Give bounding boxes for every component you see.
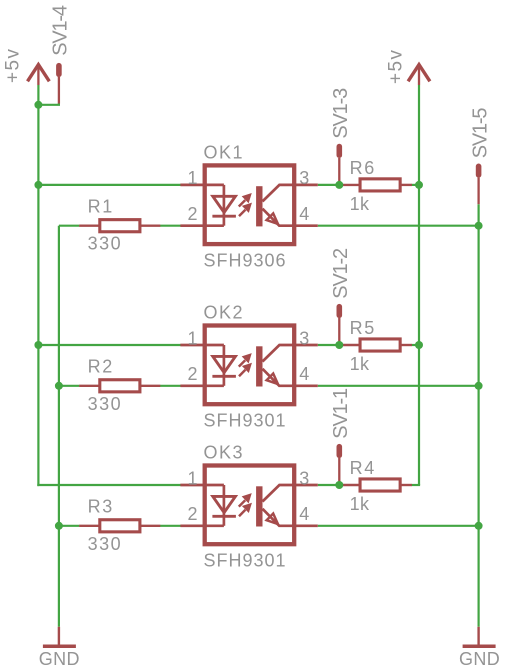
svg-text:3: 3 — [299, 168, 309, 188]
connector pin SV1-5 — [476, 166, 482, 204]
wire OK3 pin4 to SV1-5 net — [318, 525, 479, 527]
node junction SV1-1 — [335, 481, 343, 489]
OK1 body outline — [205, 165, 295, 244]
OK3 light arrow 2 — [239, 510, 245, 516]
svg-text:SV1-1: SV1-1 — [330, 388, 352, 439]
OK2 collector lead pin 3 — [263, 345, 318, 362]
OK3 collector lead pin 3 — [263, 485, 318, 502]
connector pin SV1-4 — [56, 66, 62, 104]
connector pin SV1-1 — [336, 447, 342, 485]
power +5V symbol right — [408, 65, 430, 85]
OK2 emitter lead pin 4 — [263, 369, 318, 386]
svg-text:1k: 1k — [350, 194, 370, 214]
power +5V symbol left — [28, 65, 50, 85]
OK1 emitter lead pin 4 — [263, 209, 318, 226]
node junction R2 left — [55, 382, 63, 390]
svg-text:1k: 1k — [350, 354, 370, 374]
node junction R6 right — [415, 181, 423, 189]
wire OK1 pin3 to SV1-3 node — [318, 184, 340, 186]
svg-text:SFH9301: SFH9301 — [204, 411, 287, 431]
svg-text:R2: R2 — [88, 357, 114, 377]
wire OK1 pin4 to SV1-5 net — [318, 225, 479, 227]
svg-text:SV1-3: SV1-3 — [330, 88, 352, 139]
resistor R1 330 — [79, 196, 160, 253]
svg-text:+5v: +5v — [3, 48, 24, 83]
node junction OK2 pin4 — [475, 382, 483, 390]
resistor R5 1k — [339, 318, 412, 374]
wire R1 to OK1 pin2 — [160, 225, 181, 227]
node junction OK2 pin1 — [34, 341, 42, 349]
svg-text:330: 330 — [88, 234, 123, 254]
OK1 pin 2 lead — [180, 224, 224, 227]
OK1 LED anode rail — [223, 185, 226, 226]
OK1 LED triangle — [213, 196, 236, 212]
OK1 phototransistor base bar — [256, 186, 262, 226]
OK2 pin 1 lead — [180, 344, 224, 347]
resistor R3 330 — [79, 497, 160, 554]
svg-text:R6: R6 — [350, 158, 376, 178]
svg-text:4: 4 — [299, 504, 309, 524]
svg-text:GND: GND — [459, 649, 500, 669]
node junction SV1-2 — [335, 341, 343, 349]
OK3 pin 1 lead — [180, 484, 224, 487]
node junction R5 right — [415, 341, 423, 349]
OK3 LED cathode bar — [212, 515, 236, 518]
OK1 light arrow 2 — [239, 210, 245, 216]
wire R1 left segment — [59, 225, 80, 227]
node junction OK1 pin1 — [34, 181, 42, 189]
OK3 LED anode rail — [223, 485, 226, 526]
optocoupler OK3 SFH9301 — [180, 443, 317, 571]
OK2 emitter arrowhead — [267, 374, 278, 385]
svg-text:SV1-5: SV1-5 — [469, 108, 491, 159]
svg-text:SFH9306: SFH9306 — [204, 251, 287, 271]
ground GND left — [43, 627, 76, 647]
wire net +5V vertical right (line C) — [418, 85, 420, 485]
svg-text:3: 3 — [299, 328, 309, 348]
wire R6 to +5V vertical right — [412, 184, 420, 186]
wire R3 left segment — [59, 525, 80, 527]
wire OK1 pin1 row — [38, 184, 180, 186]
wire R5 to +5V vertical right — [412, 344, 420, 346]
wire OK2 pin4 to SV1-5 net — [318, 385, 479, 387]
node junction OK1 pin4 — [475, 222, 483, 230]
wire R4 to +5V vertical right — [412, 484, 421, 486]
wire OK2 pin1 row — [38, 344, 180, 346]
svg-text:2: 2 — [187, 204, 197, 224]
node junction OK3 pin4 — [475, 522, 483, 530]
svg-text:1: 1 — [187, 468, 197, 488]
resistor R6 1k — [339, 158, 412, 214]
node junction R3 left — [55, 522, 63, 530]
svg-text:R5: R5 — [350, 318, 376, 338]
OK1 collector lead pin 3 — [263, 185, 318, 202]
OK2 light arrow 1 — [239, 346, 278, 386]
svg-text:OK2: OK2 — [204, 303, 245, 323]
svg-text:2: 2 — [187, 504, 197, 524]
OK2 phototransistor base bar — [256, 346, 262, 386]
node junction +5V/SV1-4 — [34, 101, 42, 109]
optocoupler OK2 SFH9301 — [180, 303, 317, 431]
OK3 light arrow 1 — [239, 486, 278, 526]
svg-text:1k: 1k — [350, 494, 370, 514]
svg-text:R1: R1 — [88, 196, 114, 216]
OK2 LED cathode bar — [212, 375, 236, 378]
wire OK2 pin3 to SV1-2 node — [318, 344, 340, 346]
svg-text:330: 330 — [88, 394, 123, 414]
wire OK3 pin3 to SV1-1 node — [318, 484, 340, 486]
OK2 light arrow 2 — [239, 370, 245, 376]
wire net GND vertical left (line B) — [58, 226, 60, 627]
svg-text:OK3: OK3 — [204, 443, 245, 463]
OK3 emitter arrowhead — [267, 514, 278, 525]
svg-text:4: 4 — [299, 204, 309, 224]
OK2 pin 2 lead — [180, 384, 224, 387]
svg-text:1: 1 — [187, 328, 197, 348]
svg-text:4: 4 — [299, 364, 309, 384]
svg-text:SV1-2: SV1-2 — [330, 248, 352, 299]
wire net +5V vertical left (line A) — [37, 85, 40, 485]
svg-text:3: 3 — [299, 468, 309, 488]
svg-text:1: 1 — [187, 168, 197, 188]
resistor R2 330 — [79, 357, 160, 414]
svg-text:R3: R3 — [88, 497, 114, 517]
svg-text:330: 330 — [88, 534, 123, 554]
connector pin SV1-2 — [336, 307, 342, 345]
OK2 LED triangle — [213, 356, 236, 372]
wire OK3 pin1 row — [37, 484, 180, 486]
svg-text:SFH9301: SFH9301 — [204, 551, 287, 571]
OK1 pin 1 lead — [180, 184, 224, 187]
wire R2 to OK2 pin2 — [160, 385, 181, 387]
OK3 phototransistor base bar — [256, 486, 262, 526]
wire SV1-4 to +5V tap — [38, 103, 59, 105]
OK1 LED cathode bar — [212, 215, 236, 218]
svg-text:+5v: +5v — [385, 49, 406, 84]
OK3 emitter lead pin 4 — [263, 509, 318, 526]
svg-text:SV1-4: SV1-4 — [50, 5, 72, 56]
OK2 body outline — [205, 326, 295, 405]
wire net SV1-5 vertical right (line D) — [478, 204, 480, 627]
svg-text:R4: R4 — [350, 458, 376, 478]
OK3 pin 2 lead — [180, 524, 224, 527]
connector pin SV1-3 — [336, 147, 342, 185]
svg-text:OK1: OK1 — [204, 143, 245, 163]
OK3 body outline — [205, 466, 295, 545]
OK3 LED triangle — [213, 496, 236, 512]
OK2 LED anode rail — [223, 345, 226, 386]
ground GND right — [463, 627, 496, 647]
OK1 emitter arrowhead — [267, 213, 278, 224]
svg-text:2: 2 — [187, 364, 197, 384]
resistor R4 1k — [339, 458, 412, 514]
optocoupler OK1 SFH9306 — [180, 143, 317, 271]
OK1 light arrow 1 — [239, 186, 278, 226]
svg-text:GND: GND — [39, 649, 80, 669]
wire R3 to OK3 pin2 — [160, 525, 181, 527]
node junction SV1-3 — [335, 181, 343, 189]
wire R2 left segment — [59, 385, 80, 387]
